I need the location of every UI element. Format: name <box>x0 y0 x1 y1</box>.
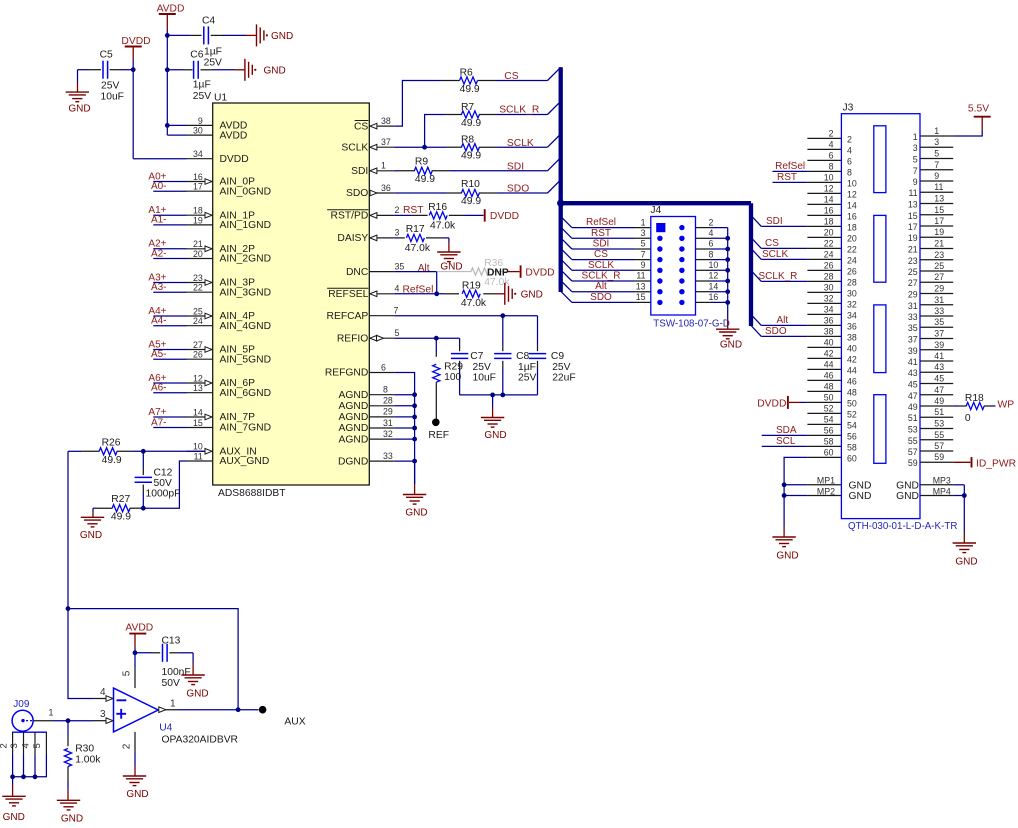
svg-text:AIN_7GND: AIN_7GND <box>220 423 272 434</box>
node REF terminal <box>428 419 449 442</box>
wire RefSel to J4 pin 1 <box>561 216 651 227</box>
wire SCL to J3 pin 58 <box>762 445 808 447</box>
svg-text:40: 40 <box>847 343 857 353</box>
power DVDD top <box>121 36 150 60</box>
wire AVDD vertical <box>167 30 186 135</box>
svg-text:47.0k: 47.0k <box>484 277 510 288</box>
net label SCLK_R <box>759 271 798 282</box>
svg-text:44: 44 <box>824 359 834 369</box>
junction <box>782 493 787 498</box>
svg-text:36: 36 <box>847 321 857 331</box>
J4 pin 5 marker <box>657 246 662 251</box>
svg-text:3: 3 <box>913 143 918 153</box>
J3 slot <box>874 305 886 373</box>
svg-text:5: 5 <box>913 155 918 165</box>
J3 pin 32 <box>807 293 856 309</box>
bus vertical left <box>559 67 563 292</box>
net label SCLK_R <box>582 271 621 282</box>
svg-text:9: 9 <box>198 116 203 126</box>
svg-text:SCLK: SCLK <box>762 249 788 260</box>
svg-text:AIN_2GND: AIN_2GND <box>220 254 272 265</box>
svg-text:A6-: A6- <box>151 383 167 394</box>
svg-text:6: 6 <box>381 362 386 372</box>
svg-text:RefSel: RefSel <box>586 217 616 228</box>
U1 pin 21 AIN_2P <box>187 239 256 255</box>
svg-text:1: 1 <box>641 217 646 227</box>
svg-text:25: 25 <box>193 306 203 316</box>
J09 shield pins 2 3 4 5 <box>0 732 47 777</box>
svg-text:DVDD: DVDD <box>757 398 786 409</box>
svg-text:2: 2 <box>709 217 714 227</box>
svg-text:2: 2 <box>121 743 132 749</box>
svg-text:GND: GND <box>720 340 742 351</box>
net label CS <box>765 238 779 249</box>
svg-text:25V: 25V <box>101 81 119 92</box>
svg-text:GND: GND <box>955 557 977 568</box>
ground for C4 <box>246 24 293 46</box>
svg-text:100nF: 100nF <box>162 667 191 678</box>
svg-text:33: 33 <box>383 451 393 461</box>
svg-text:R16: R16 <box>428 202 447 213</box>
svg-text:SCLK: SCLK <box>341 142 368 153</box>
svg-text:GND: GND <box>3 812 25 823</box>
svg-text:DNC: DNC <box>346 267 369 278</box>
U1 pin 11 AUX_GND <box>187 451 270 467</box>
power AVDD top <box>157 3 185 30</box>
svg-text:REFGND: REFGND <box>325 368 368 379</box>
svg-text:28: 28 <box>824 271 834 281</box>
svg-text:1µF: 1µF <box>204 47 222 58</box>
resistor R27 <box>93 505 143 512</box>
wire RST to J3 pin 10 <box>773 181 808 183</box>
C6 value 1uF 25V <box>193 80 211 103</box>
svg-text:22: 22 <box>847 244 857 254</box>
U1 pin 22 AIN_3GND <box>187 283 272 299</box>
wire AGND pin <box>394 416 414 418</box>
svg-text:33: 33 <box>908 312 918 322</box>
svg-text:12: 12 <box>847 189 857 199</box>
J3 pin 39 <box>908 340 953 356</box>
junction <box>131 67 136 72</box>
J3 pin 11 <box>909 182 954 198</box>
svg-text:SCLK: SCLK <box>507 138 534 149</box>
svg-text:3: 3 <box>395 228 400 238</box>
svg-text:49: 49 <box>934 396 944 406</box>
U1 pin 36 SDO <box>346 183 394 199</box>
net label A7+ <box>148 407 166 418</box>
svg-text:45: 45 <box>908 380 918 390</box>
svg-text:59: 59 <box>908 458 918 468</box>
ground for AGND DGND <box>403 461 428 518</box>
net label SDO <box>507 184 529 195</box>
J3 slot <box>874 395 886 464</box>
svg-text:26: 26 <box>847 266 857 276</box>
wire SDO to J4 pin 15 <box>561 291 651 302</box>
J4 pin 6 <box>696 239 728 249</box>
svg-text:35: 35 <box>395 261 405 271</box>
wire SDI to bus <box>450 158 561 171</box>
R19 value 47.0k <box>461 298 487 309</box>
svg-text:SDI: SDI <box>507 162 524 173</box>
svg-text:20: 20 <box>847 233 857 243</box>
J4 pin 10 marker <box>679 268 684 273</box>
wire net A7- <box>153 427 186 429</box>
svg-text:46: 46 <box>847 376 857 386</box>
svg-text:16: 16 <box>193 172 203 182</box>
svg-text:11: 11 <box>909 188 918 198</box>
J3 pin 41 <box>908 351 953 367</box>
J3 pin 23 <box>908 250 953 266</box>
junction <box>725 257 730 262</box>
svg-text:SDO: SDO <box>346 188 368 199</box>
power AVDD at opamp <box>125 623 153 653</box>
svg-text:C7: C7 <box>470 351 483 362</box>
svg-text:53: 53 <box>934 419 944 429</box>
J4 pin 4 marker <box>679 236 684 241</box>
R6 label <box>460 68 473 79</box>
svg-text:15: 15 <box>636 292 646 302</box>
wire SCLK to J4 pin 9 <box>561 259 651 270</box>
J3 pin 1 <box>913 126 953 142</box>
wire pin 38 to R6 row <box>394 81 441 127</box>
svg-text:2: 2 <box>847 134 852 144</box>
J3 pin MP2 <box>784 486 871 502</box>
svg-text:32: 32 <box>847 299 857 309</box>
svg-text:4: 4 <box>847 145 852 155</box>
svg-text:60: 60 <box>824 447 834 457</box>
svg-text:1: 1 <box>170 699 176 710</box>
J3 pin 20 <box>807 227 856 243</box>
R19 label <box>462 281 481 292</box>
net label A4+ <box>148 306 166 317</box>
J3 slot <box>874 215 886 282</box>
svg-text:17: 17 <box>908 222 918 232</box>
power DVDD at J3 pin 50 <box>757 396 807 409</box>
svg-text:DAISY: DAISY <box>337 233 368 244</box>
svg-text:4: 4 <box>709 228 714 238</box>
power DVDD at R36 <box>508 265 555 278</box>
net label RST <box>591 228 611 239</box>
svg-text:4: 4 <box>21 743 32 748</box>
svg-text:50: 50 <box>824 392 834 402</box>
J4 pin 9 number <box>641 260 646 270</box>
svg-text:56: 56 <box>824 425 834 435</box>
J3 pin 18 <box>807 216 856 232</box>
J3 pin 14 <box>807 194 856 210</box>
J3 pin 54 <box>807 414 856 430</box>
svg-text:GND: GND <box>484 430 506 441</box>
svg-text:5: 5 <box>32 743 43 748</box>
J3 refdes <box>843 102 854 113</box>
net label A2- <box>151 248 167 259</box>
node AUX terminal <box>259 706 306 727</box>
ground for R19 <box>495 283 543 305</box>
svg-text:AIN_6GND: AIN_6GND <box>220 388 272 399</box>
svg-text:19: 19 <box>934 227 944 237</box>
svg-text:SDO: SDO <box>765 326 787 337</box>
svg-text:29: 29 <box>908 290 918 300</box>
svg-text:46: 46 <box>824 370 834 380</box>
junction <box>66 718 71 723</box>
svg-text:43: 43 <box>934 362 944 372</box>
J3 pin 4 <box>807 139 852 155</box>
junction <box>725 300 730 305</box>
R7 value 49.9 <box>461 118 481 129</box>
J3 pin 47 <box>908 385 953 401</box>
capacitor C4 <box>167 26 246 44</box>
J3 pin 58 <box>807 436 856 452</box>
R30 value 1.00k <box>75 755 101 766</box>
C8 label <box>516 351 529 362</box>
J3 pin 7 <box>913 160 953 176</box>
net label A0+ <box>148 171 166 182</box>
svg-text:MP1: MP1 <box>817 476 835 486</box>
J09 refdes <box>13 699 30 710</box>
wire net A3+ <box>153 282 186 284</box>
svg-text:A1-: A1- <box>151 215 167 226</box>
svg-text:23: 23 <box>934 250 944 260</box>
junction <box>412 392 417 397</box>
svg-text:J4: J4 <box>650 205 661 216</box>
U1 pin 4 REFSEL <box>327 284 399 300</box>
svg-text:DVDD: DVDD <box>121 36 150 47</box>
U1 pin 10 AUX_IN <box>187 442 257 458</box>
U1 pin 6 REFGND <box>325 362 394 378</box>
U1 pin 23 AIN_3P <box>187 273 256 289</box>
svg-text:R18: R18 <box>965 393 984 404</box>
op-amp U4 <box>114 688 159 732</box>
resistor R30 <box>64 721 71 790</box>
J4 pin 4 <box>696 228 728 238</box>
U1 pin 30 AVDD <box>187 126 248 142</box>
svg-text:9: 9 <box>934 171 939 181</box>
net label SCLK <box>507 138 534 149</box>
svg-text:8: 8 <box>829 161 834 171</box>
svg-text:GND: GND <box>849 480 872 491</box>
svg-text:27: 27 <box>908 278 918 288</box>
J4 pin 11 marker <box>657 278 662 283</box>
net label SCLK_R <box>499 105 539 116</box>
R26 value 49.9 <box>102 455 122 466</box>
svg-text:36: 36 <box>381 183 391 193</box>
J3 pin 21 <box>908 239 953 255</box>
svg-text:25V: 25V <box>473 362 491 373</box>
svg-text:GND: GND <box>68 103 90 114</box>
wire net A7+ <box>153 416 186 418</box>
svg-text:U1: U1 <box>214 93 227 104</box>
wire feedback <box>68 609 238 710</box>
svg-text:U4: U4 <box>159 722 172 733</box>
svg-text:MP2: MP2 <box>817 486 835 496</box>
U1 pin 16 AIN_0P <box>187 172 256 188</box>
svg-text:45: 45 <box>934 374 944 384</box>
svg-text:5: 5 <box>395 328 400 338</box>
wire AGND pin <box>394 427 414 429</box>
svg-text:4: 4 <box>395 284 400 294</box>
resistor R26 <box>68 448 205 455</box>
J4 pin 9 marker <box>657 268 662 273</box>
C9 label <box>551 351 564 362</box>
J3 pin 35 <box>908 317 953 333</box>
svg-text:GND: GND <box>521 290 543 301</box>
svg-text:20: 20 <box>824 227 834 237</box>
J3 pin 55 <box>908 430 953 446</box>
svg-text:J09: J09 <box>13 699 30 710</box>
svg-text:58: 58 <box>847 442 857 452</box>
J3 pin 53 <box>908 419 953 435</box>
junction <box>962 493 967 498</box>
U1 pin 20 AIN_2GND <box>187 249 272 265</box>
ground for R17 <box>437 238 462 272</box>
J3 pin 33 <box>908 306 953 322</box>
J3 pin 34 <box>807 304 856 320</box>
svg-text:13: 13 <box>636 281 646 291</box>
J4 pin 8 marker <box>679 257 684 262</box>
J3 pin MP3 <box>896 476 964 492</box>
resistor R16 <box>394 212 483 219</box>
C5 value 25V 10uF <box>101 81 124 103</box>
wire SDI from bus to J3 <box>751 215 807 226</box>
svg-text:7: 7 <box>641 249 646 259</box>
svg-text:12: 12 <box>709 271 719 281</box>
svg-text:47: 47 <box>908 391 918 401</box>
svg-text:R7: R7 <box>461 102 474 113</box>
U1 pin 26 AIN_5GND <box>187 350 272 366</box>
svg-text:38: 38 <box>824 326 834 336</box>
svg-text:49: 49 <box>908 402 918 412</box>
svg-text:35: 35 <box>934 317 944 327</box>
U4 refdes <box>159 722 172 733</box>
svg-text:18: 18 <box>193 206 203 216</box>
svg-text:C6: C6 <box>190 50 203 61</box>
net label A3- <box>151 282 167 293</box>
wire net A5+ <box>153 349 186 351</box>
C7 label <box>470 351 483 362</box>
svg-text:24: 24 <box>847 255 857 265</box>
J3 pin 56 <box>807 425 856 441</box>
ground for J3 right <box>953 533 978 568</box>
svg-text:32: 32 <box>383 429 393 439</box>
ground for C6 <box>235 59 286 81</box>
J4 pin 12 <box>696 271 728 281</box>
svg-text:CS: CS <box>504 71 518 82</box>
R30 label <box>75 743 94 754</box>
J3 pin 51 <box>908 407 953 423</box>
svg-text:A3-: A3- <box>151 282 167 293</box>
svg-text:6: 6 <box>709 239 714 249</box>
svg-text:21: 21 <box>193 239 203 249</box>
junction <box>412 403 417 408</box>
J3 pin 10 <box>807 172 856 188</box>
wire SDO to bus <box>497 180 561 193</box>
svg-text:1: 1 <box>913 132 918 142</box>
svg-text:7: 7 <box>394 306 399 316</box>
ground for J4 <box>716 319 742 351</box>
svg-text:A7-: A7- <box>151 417 167 428</box>
junction <box>236 707 241 712</box>
svg-text:SCL: SCL <box>776 436 796 447</box>
R26 label <box>102 437 121 448</box>
net label Alt <box>595 281 607 292</box>
svg-text:0: 0 <box>965 413 971 424</box>
wire REFSEL row <box>394 293 443 295</box>
junction <box>500 393 505 398</box>
svg-text:16: 16 <box>709 292 719 302</box>
net label SCL <box>776 436 796 447</box>
ground for C5 <box>66 70 91 115</box>
J4 pin 10 <box>696 260 728 270</box>
svg-text:33: 33 <box>934 306 944 316</box>
svg-text:QTH-030-01-L-D-A-K-TR: QTH-030-01-L-D-A-K-TR <box>848 521 957 532</box>
svg-text:49.9: 49.9 <box>460 84 480 95</box>
svg-text:MP4: MP4 <box>933 486 951 496</box>
U4 pin 2 to ground <box>121 732 148 800</box>
svg-text:48: 48 <box>847 387 857 397</box>
wire 5.5V to J3 pin 1 <box>953 130 982 136</box>
svg-text:37: 37 <box>934 329 944 339</box>
C13 label <box>162 635 181 646</box>
C13 value 100nF 50V <box>162 667 191 689</box>
svg-text:37: 37 <box>381 137 391 147</box>
wire CS to J4 pin 7 <box>561 248 651 259</box>
svg-text:9: 9 <box>641 260 646 270</box>
svg-text:RST: RST <box>403 205 424 216</box>
resistor R17 <box>394 234 449 241</box>
svg-text:37: 37 <box>908 335 918 345</box>
svg-text:2: 2 <box>0 743 9 748</box>
J3 pin 50 <box>807 392 856 408</box>
svg-text:5: 5 <box>641 239 646 249</box>
svg-text:5: 5 <box>121 670 132 676</box>
U4 pin 4 input <box>93 687 113 701</box>
wire net A2+ <box>153 248 186 250</box>
J4 pin 11 number <box>636 271 645 281</box>
resistor R6 <box>441 77 496 84</box>
svg-text:DVDD: DVDD <box>525 268 554 279</box>
svg-text:43: 43 <box>908 368 918 378</box>
svg-text:30: 30 <box>847 288 857 298</box>
svg-text:27: 27 <box>193 340 203 350</box>
C12 value 50V 1000pF <box>146 478 181 499</box>
R17 value 47.0k <box>405 243 431 254</box>
svg-text:RST/PD: RST/PD <box>331 211 369 222</box>
svg-text:51: 51 <box>908 413 918 423</box>
svg-text:49.9: 49.9 <box>461 196 481 207</box>
U1 pin 17 AIN_0GND <box>187 182 272 198</box>
J3 pin 15 <box>908 205 953 221</box>
svg-text:38: 38 <box>847 332 857 342</box>
svg-text:54: 54 <box>824 414 834 424</box>
U4 pin 3 input <box>100 709 113 723</box>
J4 part number TSW-108-07-G-D <box>653 318 730 329</box>
junction pin 37 <box>422 145 427 150</box>
svg-text:59: 59 <box>934 452 944 462</box>
net label SDO <box>590 292 612 303</box>
svg-text:15: 15 <box>908 211 918 221</box>
bus vertical right <box>749 203 753 326</box>
resistor R36 DNP <box>437 268 508 275</box>
wire AGND pin <box>394 405 414 407</box>
junction <box>165 123 170 128</box>
J3 pin 19 <box>908 227 953 243</box>
svg-text:DVDD: DVDD <box>490 211 519 222</box>
net label Alt <box>418 263 430 274</box>
IC U1 ADS8688IDBT body <box>213 103 370 485</box>
ground for J3 left <box>772 527 798 562</box>
wire ground rail under C7 C8 C9 <box>460 394 538 396</box>
net label SDI <box>593 239 610 250</box>
J3 pin 49 <box>908 396 953 412</box>
